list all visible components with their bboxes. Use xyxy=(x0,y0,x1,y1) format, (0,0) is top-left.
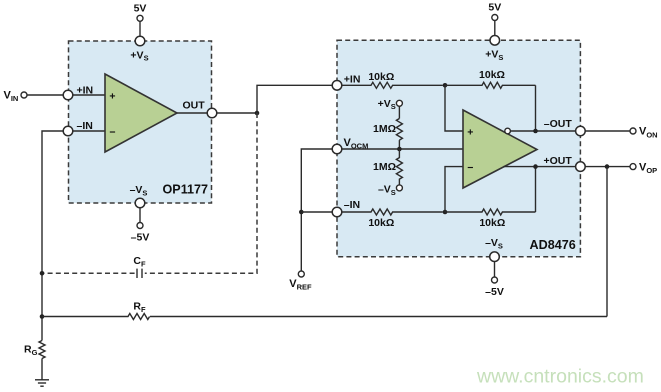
wire +OUT to VOP xyxy=(585,166,630,168)
node G (VREF / -IN junction) xyxy=(299,210,304,215)
wire VOCM to amp centre xyxy=(342,148,463,150)
resistor RF xyxy=(42,300,150,319)
input terminal VIN xyxy=(4,89,28,103)
pin -VS (OP1177) xyxy=(135,198,145,208)
pin VOCM (AD8476) xyxy=(332,137,368,154)
wire node H to amp - input xyxy=(445,167,463,212)
wire +VS to R3 xyxy=(398,106,400,118)
resistor R1 10k (upper input) xyxy=(342,71,443,88)
wire bubble to -OUT pin xyxy=(510,130,575,132)
node B (inverting input net junction) xyxy=(40,271,45,276)
svg-text:10kΩ: 10kΩ xyxy=(368,217,394,229)
resistor R3 1M xyxy=(373,119,402,141)
wire node A to +IN (AD8476) xyxy=(257,85,332,113)
supply terminal +VS (1M divider) xyxy=(378,98,403,111)
node C (RF junction) xyxy=(40,314,45,319)
node E (-OUT junction) xyxy=(533,129,538,134)
svg-text:+IN: +IN xyxy=(344,74,361,86)
wire VOCM to VREF xyxy=(301,149,332,271)
pin -IN (AD8476) xyxy=(332,199,360,217)
wire VIN to +IN xyxy=(27,94,63,96)
reference terminal VREF xyxy=(289,271,312,292)
wire feedback to -OUT node xyxy=(535,85,537,131)
svg-text:−: − xyxy=(109,126,115,138)
svg-text:1MΩ: 1MΩ xyxy=(373,123,396,135)
svg-text:10kΩ: 10kΩ xyxy=(479,69,505,81)
wire 5V stub (left) xyxy=(139,21,141,36)
wire R3 to VOCM node xyxy=(398,140,400,149)
dashed wire CF to node B xyxy=(42,272,135,274)
svg-text:+OUT: +OUT xyxy=(544,155,573,167)
pin -VS (AD8476) xyxy=(490,252,500,262)
svg-text:+: + xyxy=(109,91,115,103)
capacitor CF xyxy=(133,255,146,278)
svg-text:1MΩ: 1MΩ xyxy=(373,161,396,173)
resistor R6 10k (lower feedback) xyxy=(445,209,536,229)
resistor R2 10k (upper feedback) xyxy=(445,69,536,88)
pin OUT (OP1177) xyxy=(207,108,217,118)
wire feedback to +OUT node xyxy=(535,167,537,212)
op-amp U1 triangle (OP1177) xyxy=(105,74,177,152)
wire node D to amp + input xyxy=(445,85,463,131)
pin +OUT (AD8476) xyxy=(576,162,586,172)
svg-text:5V: 5V xyxy=(488,1,501,13)
wire node G to -IN xyxy=(301,211,332,213)
wire -VS stub (left) xyxy=(139,208,141,223)
wire 5V stub (right) xyxy=(494,21,496,36)
svg-text:–OUT: –OUT xyxy=(544,118,573,130)
op-amp block OP1177 (dashed box) xyxy=(69,41,212,203)
node H (lower summing) xyxy=(443,210,448,215)
svg-text:10kΩ: 10kΩ xyxy=(479,217,505,229)
feedback dashed wire node A down to CF xyxy=(145,113,257,273)
wire amp to +OUT pin xyxy=(504,166,576,168)
wire -IN feedback drop to RG xyxy=(42,131,63,341)
output terminal VON xyxy=(630,126,658,140)
pin +VS (AD8476) xyxy=(485,36,503,63)
svg-text:5V: 5V xyxy=(134,3,147,15)
svg-text:–IN: –IN xyxy=(344,199,360,211)
pin -OUT (AD8476) xyxy=(576,126,586,136)
supply terminal 5V (right) xyxy=(488,1,501,20)
wire RF to VOP branch xyxy=(150,316,607,318)
supply terminal 5V (left) xyxy=(134,3,147,22)
svg-text:www.cntronics.com: www.cntronics.com xyxy=(476,366,644,388)
amplifier block AD8476 (dashed box) xyxy=(337,40,580,256)
wire node J down to RF rail xyxy=(606,167,608,317)
node J (VOP branch) xyxy=(605,164,610,169)
wire -OUT to VON xyxy=(585,130,630,132)
svg-text:–5V: –5V xyxy=(485,286,504,298)
pin -IN (OP1177) xyxy=(63,120,93,136)
inverting output bubble xyxy=(505,128,511,134)
wire RG to ground xyxy=(41,359,43,380)
wire OUT to node A xyxy=(217,112,257,114)
svg-text:AD8476: AD8476 xyxy=(530,238,576,252)
svg-text:+: + xyxy=(467,127,473,139)
output terminal VOP xyxy=(630,161,657,175)
supply terminal -5V (right) xyxy=(485,277,504,298)
svg-text:OUT: OUT xyxy=(183,100,206,112)
node D (upper summing) xyxy=(443,83,448,88)
svg-text:10kΩ: 10kΩ xyxy=(368,71,394,83)
supply terminal -VS (1M divider) xyxy=(378,183,402,196)
svg-text:−: − xyxy=(467,162,473,174)
wire -IN to op-amp xyxy=(73,130,105,132)
svg-text:–5V: –5V xyxy=(131,231,150,243)
node A (OP1177 output junction) xyxy=(255,111,260,116)
svg-text:OP1177: OP1177 xyxy=(163,183,209,197)
resistor R4 1M xyxy=(373,149,402,185)
node F (divider midpoint) xyxy=(397,147,402,152)
resistor RG xyxy=(24,341,45,359)
wire +IN to op-amp xyxy=(73,94,105,96)
pin +IN (AD8476) xyxy=(332,74,360,90)
wire -VS stub (right) xyxy=(494,262,496,278)
wire op-amp output to OUT pin xyxy=(177,112,207,114)
ground xyxy=(35,380,49,386)
resistor R5 10k (lower input) xyxy=(342,209,443,229)
supply terminal -5V (left) xyxy=(131,223,150,244)
pin +VS (OP1177) xyxy=(130,36,148,63)
amplifier U2 triangle (AD8476) xyxy=(463,110,537,188)
pin +IN (OP1177) xyxy=(63,85,93,100)
node I (+OUT junction) xyxy=(533,164,538,169)
